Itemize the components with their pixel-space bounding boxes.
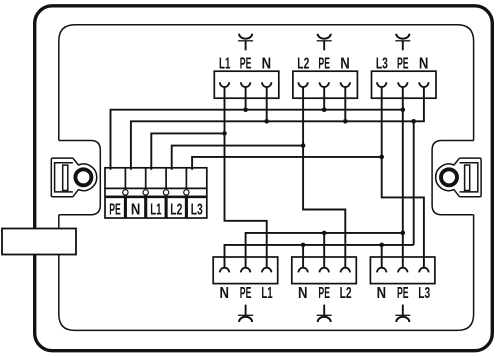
svg-text:L2: L2 — [340, 285, 352, 302]
socket B2 box — [292, 257, 357, 284]
svg-text:L2: L2 — [170, 201, 182, 218]
wire T1 PE stub — [245, 87, 247, 110]
junction B3 PE / bottom PE bus — [401, 231, 406, 236]
junction T2 PE / PE bus — [322, 107, 327, 112]
junction T1 N / N bus — [264, 119, 269, 124]
svg-text:N: N — [340, 56, 350, 73]
svg-text:N: N — [219, 285, 229, 302]
wire T3 PE down to B3 PE — [402, 87, 404, 268]
svg-text:PE: PE — [109, 201, 121, 218]
socket symbol below B2 — [317, 305, 332, 322]
svg-text:L1: L1 — [261, 285, 272, 302]
bottom socket labels — [219, 285, 430, 302]
wire T1 N stub — [266, 87, 268, 122]
svg-text:L3: L3 — [376, 56, 388, 73]
left mounting lug — [51, 141, 100, 215]
terminal block X1 (5-pole PE N L1 L2 L3) — [105, 168, 207, 218]
junction T1 L1 / L1 bus — [222, 131, 227, 136]
wire T2 N stub — [344, 87, 346, 122]
svg-text:L2: L2 — [297, 56, 309, 73]
wire L3 bus — [192, 157, 382, 170]
wire PE bus — [111, 110, 403, 170]
wire T2 L2 down + jog to B2 L2 — [303, 87, 345, 268]
junction T3 PE / PE bus — [401, 107, 406, 112]
socket B1 box — [213, 257, 278, 284]
svg-text:N: N — [131, 201, 141, 218]
svg-text:PE: PE — [240, 285, 252, 302]
socket symbol below B1 — [238, 305, 253, 322]
junction B2 N / bottom N bus — [301, 243, 306, 248]
wire B2 PE stub — [323, 233, 325, 268]
svg-text:L3: L3 — [418, 285, 430, 302]
junction N drop / N bus — [411, 119, 416, 124]
svg-text:N: N — [298, 285, 308, 302]
svg-text:L3: L3 — [191, 201, 203, 218]
X1 labels — [109, 201, 203, 218]
junction B3 N / bottom N bus — [379, 243, 384, 248]
bottom terminal arcs — [220, 268, 429, 273]
socket T3 box — [372, 71, 437, 98]
wire T3 L3 down + jog to B3 L3 — [382, 87, 424, 268]
wire bottom PE bus — [246, 233, 403, 268]
wire bottom N bus — [225, 245, 414, 268]
svg-text:N: N — [377, 285, 387, 302]
svg-text:N: N — [419, 56, 429, 73]
junction T3 L3 / L3 bus — [379, 155, 384, 160]
cable entry — [2, 229, 76, 255]
junction B2 PE / bottom PE bus — [322, 231, 327, 236]
svg-text:L1: L1 — [219, 56, 230, 73]
wire B3 N stub — [381, 245, 383, 268]
top socket labels — [219, 56, 428, 73]
socket B3 box — [370, 257, 435, 284]
enclosure inner border — [59, 25, 474, 331]
plug symbol above T2 — [317, 34, 332, 51]
socket T2 box — [293, 71, 358, 98]
wire L2 bus — [172, 146, 303, 170]
svg-text:N: N — [262, 56, 272, 73]
junction T1 PE / PE bus — [243, 107, 248, 112]
svg-text:PE: PE — [318, 285, 330, 302]
svg-text:PE: PE — [318, 56, 330, 73]
plug symbol above T3 — [395, 34, 410, 51]
plug symbol above T1 — [238, 34, 253, 51]
wire T1 L1 down + jog to B1 L1 — [225, 87, 267, 268]
socket symbol below B3 — [395, 305, 410, 322]
junction T2 N / N bus — [343, 119, 348, 124]
wire T2 PE stub — [323, 87, 325, 110]
wire N bus — [131, 87, 424, 170]
wire L1 bus — [151, 133, 224, 169]
svg-text:PE: PE — [397, 285, 409, 302]
right mounting lug — [432, 141, 481, 215]
svg-text:PE: PE — [240, 56, 252, 73]
svg-text:PE: PE — [397, 56, 409, 73]
svg-text:L1: L1 — [150, 201, 161, 218]
wire T3 N down-jog — [413, 121, 415, 245]
wire B2 N stub — [302, 245, 304, 268]
junction T2 L2 / L2 bus — [301, 143, 306, 148]
socket T1 box — [214, 71, 278, 98]
top terminal arcs — [220, 82, 429, 87]
